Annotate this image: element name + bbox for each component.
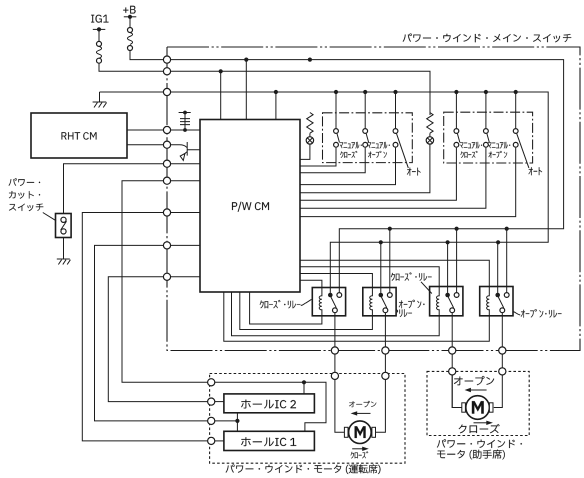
wire +B to fuse <box>129 17 131 28</box>
wire lamp1 to CM <box>300 146 310 159</box>
hall IC 1 box <box>224 431 315 450</box>
wire sw2-auto to CM <box>300 148 516 217</box>
wire IG1 to fuse <box>98 29 100 41</box>
connector pin left 7 <box>163 177 170 184</box>
wire switch bus (line B feed) <box>171 92 549 293</box>
switch manual-open 2 <box>485 92 487 128</box>
connector pin bottom 3 <box>449 347 456 354</box>
label manual-open 2 <box>488 142 510 149</box>
connector pin hall 3 <box>208 417 215 424</box>
wire ground bus <box>100 91 164 93</box>
control module P/W CM <box>200 120 300 293</box>
wire IG1 bus <box>171 71 430 115</box>
connector pin bottom 4 <box>499 347 506 354</box>
wire sw2-close to CM <box>300 148 456 201</box>
wire relay1 coil return <box>250 292 322 324</box>
label auto 1 <box>407 168 421 176</box>
connector pin motor pas 1 <box>449 368 456 375</box>
arrow passenger open <box>470 389 487 391</box>
label driver open <box>349 401 376 407</box>
wire RHT pin2 <box>127 144 163 146</box>
label manual-close 2 <box>460 142 482 149</box>
connector pin hall 1 <box>208 379 215 386</box>
wire IG1 fuse to connector <box>99 63 163 71</box>
wire connector row6 to hall area <box>95 245 208 421</box>
wire R1 output <box>334 313 336 372</box>
label relay4 <box>521 309 562 317</box>
node +B terminal <box>128 15 132 19</box>
wire CM to relay3 coil <box>300 267 439 287</box>
power label IG1 <box>91 15 108 23</box>
connector pin motor drv 2 <box>382 372 389 379</box>
arrow driver close <box>352 448 363 450</box>
label relay2 <box>399 300 425 308</box>
passenger motor unit box <box>427 371 529 435</box>
wire hall ic2 in <box>215 401 224 403</box>
wire connector to CM row4 <box>171 180 200 182</box>
wire connector to CM row7 <box>171 276 200 278</box>
wire CM top drop 2 <box>245 60 247 120</box>
arrow driver open <box>356 412 371 414</box>
noise filter <box>183 111 187 115</box>
label passenger motor unit <box>437 439 522 448</box>
node bus dots B <box>274 90 278 94</box>
ground power cut switch <box>57 258 70 260</box>
node bus dot IG1 <box>219 69 223 73</box>
connector pin left 2 <box>163 68 170 75</box>
connector pin left 8 <box>163 209 170 216</box>
switch auto 2 <box>515 92 517 128</box>
motor driver M <box>349 421 372 444</box>
wire connector to CM row6 <box>171 244 200 246</box>
label relay1 <box>260 300 301 309</box>
wire lineA to R3 contact <box>456 229 458 293</box>
wire R2 to driver motor <box>376 380 386 433</box>
label manual-open 1 <box>368 142 390 149</box>
label hall IC 1 <box>241 437 296 446</box>
leader power cut switch <box>43 213 56 221</box>
label manual-close 1 <box>340 142 362 149</box>
node IG1 terminal <box>97 27 101 31</box>
wire hall ic1 in <box>215 440 224 442</box>
switch unit box 2 <box>444 112 533 163</box>
label driver motor unit <box>226 464 381 474</box>
label hall IC 2 <box>241 400 296 409</box>
resistor and lamp 2 (illumination) <box>427 113 433 134</box>
wire R1 to driver motor <box>335 380 345 433</box>
label P/W CM <box>232 202 269 212</box>
connector pin left 4 <box>163 126 170 133</box>
connector pin motor drv 1 <box>331 372 338 379</box>
wire +B fuse to connector <box>130 51 163 60</box>
label RHT CM <box>62 132 97 139</box>
hall IC 2 box <box>224 394 315 413</box>
connector pin left 9 <box>163 242 170 249</box>
connector pin bottom 1 <box>331 347 338 354</box>
wire R4 output <box>501 313 503 368</box>
fuse IG1 <box>97 41 102 46</box>
wire CM to relay1 coil <box>300 280 322 287</box>
wire connector row4 to hall area <box>122 181 208 383</box>
wire R2 output <box>384 313 386 372</box>
label passenger open <box>454 376 494 385</box>
arrow passenger close <box>474 422 488 424</box>
ground RHT <box>93 92 107 102</box>
wire lineB to R2 contact <box>380 242 382 293</box>
wire relay4 coil return <box>224 292 490 341</box>
fuse +B <box>128 28 133 33</box>
connector pin hall 2 <box>208 398 215 405</box>
wire lamp2 to CM <box>300 146 430 193</box>
wire sw2-open to CM <box>300 148 486 209</box>
node bus dots A <box>244 58 248 62</box>
switch unit box 1 <box>323 113 413 163</box>
wire lineA to R4 contact <box>506 229 508 293</box>
wire R3 to passenger motor <box>452 375 462 408</box>
wire connector to CM row5 <box>171 212 200 214</box>
wire sw1-open to CM <box>300 148 365 173</box>
wire R3 output <box>451 313 453 368</box>
label auto 2 <box>529 167 543 175</box>
motor passenger M <box>466 396 490 420</box>
connector pin bottom 2 <box>382 347 389 354</box>
wire CM top drop 3 <box>275 92 277 120</box>
wire connector to CM row1 <box>171 129 200 131</box>
wire hall mid <box>215 413 238 432</box>
connector pin motor pas 2 <box>499 368 506 375</box>
wire +B bus (line A feed) <box>171 60 564 293</box>
switch manual-close 2 <box>455 92 457 128</box>
power window main switch unit boundary <box>167 47 580 351</box>
wire CM to relay4 coil <box>300 260 489 286</box>
wire sw1-close to CM <box>300 148 336 166</box>
wire relay3 coil return <box>232 292 440 336</box>
power label +B <box>123 6 135 14</box>
resistor and lamp 1 (illumination) <box>307 113 313 134</box>
wire connector to power cut switch <box>64 164 164 214</box>
switch auto 1 <box>395 92 397 128</box>
connector pin hall 4 <box>208 437 215 444</box>
wire hall supply <box>215 382 326 431</box>
switch manual-open 1 <box>364 92 366 128</box>
driver motor unit box <box>210 374 405 464</box>
wire R4 to passenger motor <box>494 375 503 408</box>
wire lineB to R4 contact <box>497 242 499 293</box>
wire connector row5 to hall area <box>82 213 207 441</box>
transistor (RHT input) <box>171 142 200 156</box>
connector pin left 3 <box>163 88 170 95</box>
relay open (driver) R2 <box>363 288 396 316</box>
label relay3 <box>391 272 432 281</box>
control module RHT CM <box>31 113 127 158</box>
connector pin left 5 <box>163 141 170 148</box>
wire connector row7 to hall area <box>108 277 207 402</box>
wire CM to relay2 coil <box>300 274 372 288</box>
wire connector to CM row3 <box>171 163 200 165</box>
connector pin left 10 <box>163 273 170 280</box>
wire CM top drop 1 <box>220 71 222 119</box>
power cut switch <box>56 214 72 238</box>
connector pin left 6 <box>163 160 170 167</box>
relay close (passenger) R3 <box>430 287 463 316</box>
relay open (passenger) R4 <box>480 287 513 316</box>
wire R3 to passenger motor <box>452 375 462 408</box>
connector pin left 1 <box>163 56 170 63</box>
wire lineB to R3 contact <box>447 242 449 293</box>
wire lineA to R2 contact <box>389 229 391 293</box>
wire switch to ground <box>63 238 65 259</box>
wire RHT pin1 <box>127 129 163 131</box>
wire relay2 coil return <box>240 292 373 330</box>
label power cut switch <box>9 178 40 186</box>
relay close (driver) R1 <box>312 288 345 316</box>
label driver close <box>351 451 369 458</box>
label passenger close <box>459 424 500 433</box>
switch manual-close 1 <box>335 92 337 128</box>
wire sw1-auto to CM <box>300 148 396 185</box>
label power window main switch <box>403 34 572 43</box>
